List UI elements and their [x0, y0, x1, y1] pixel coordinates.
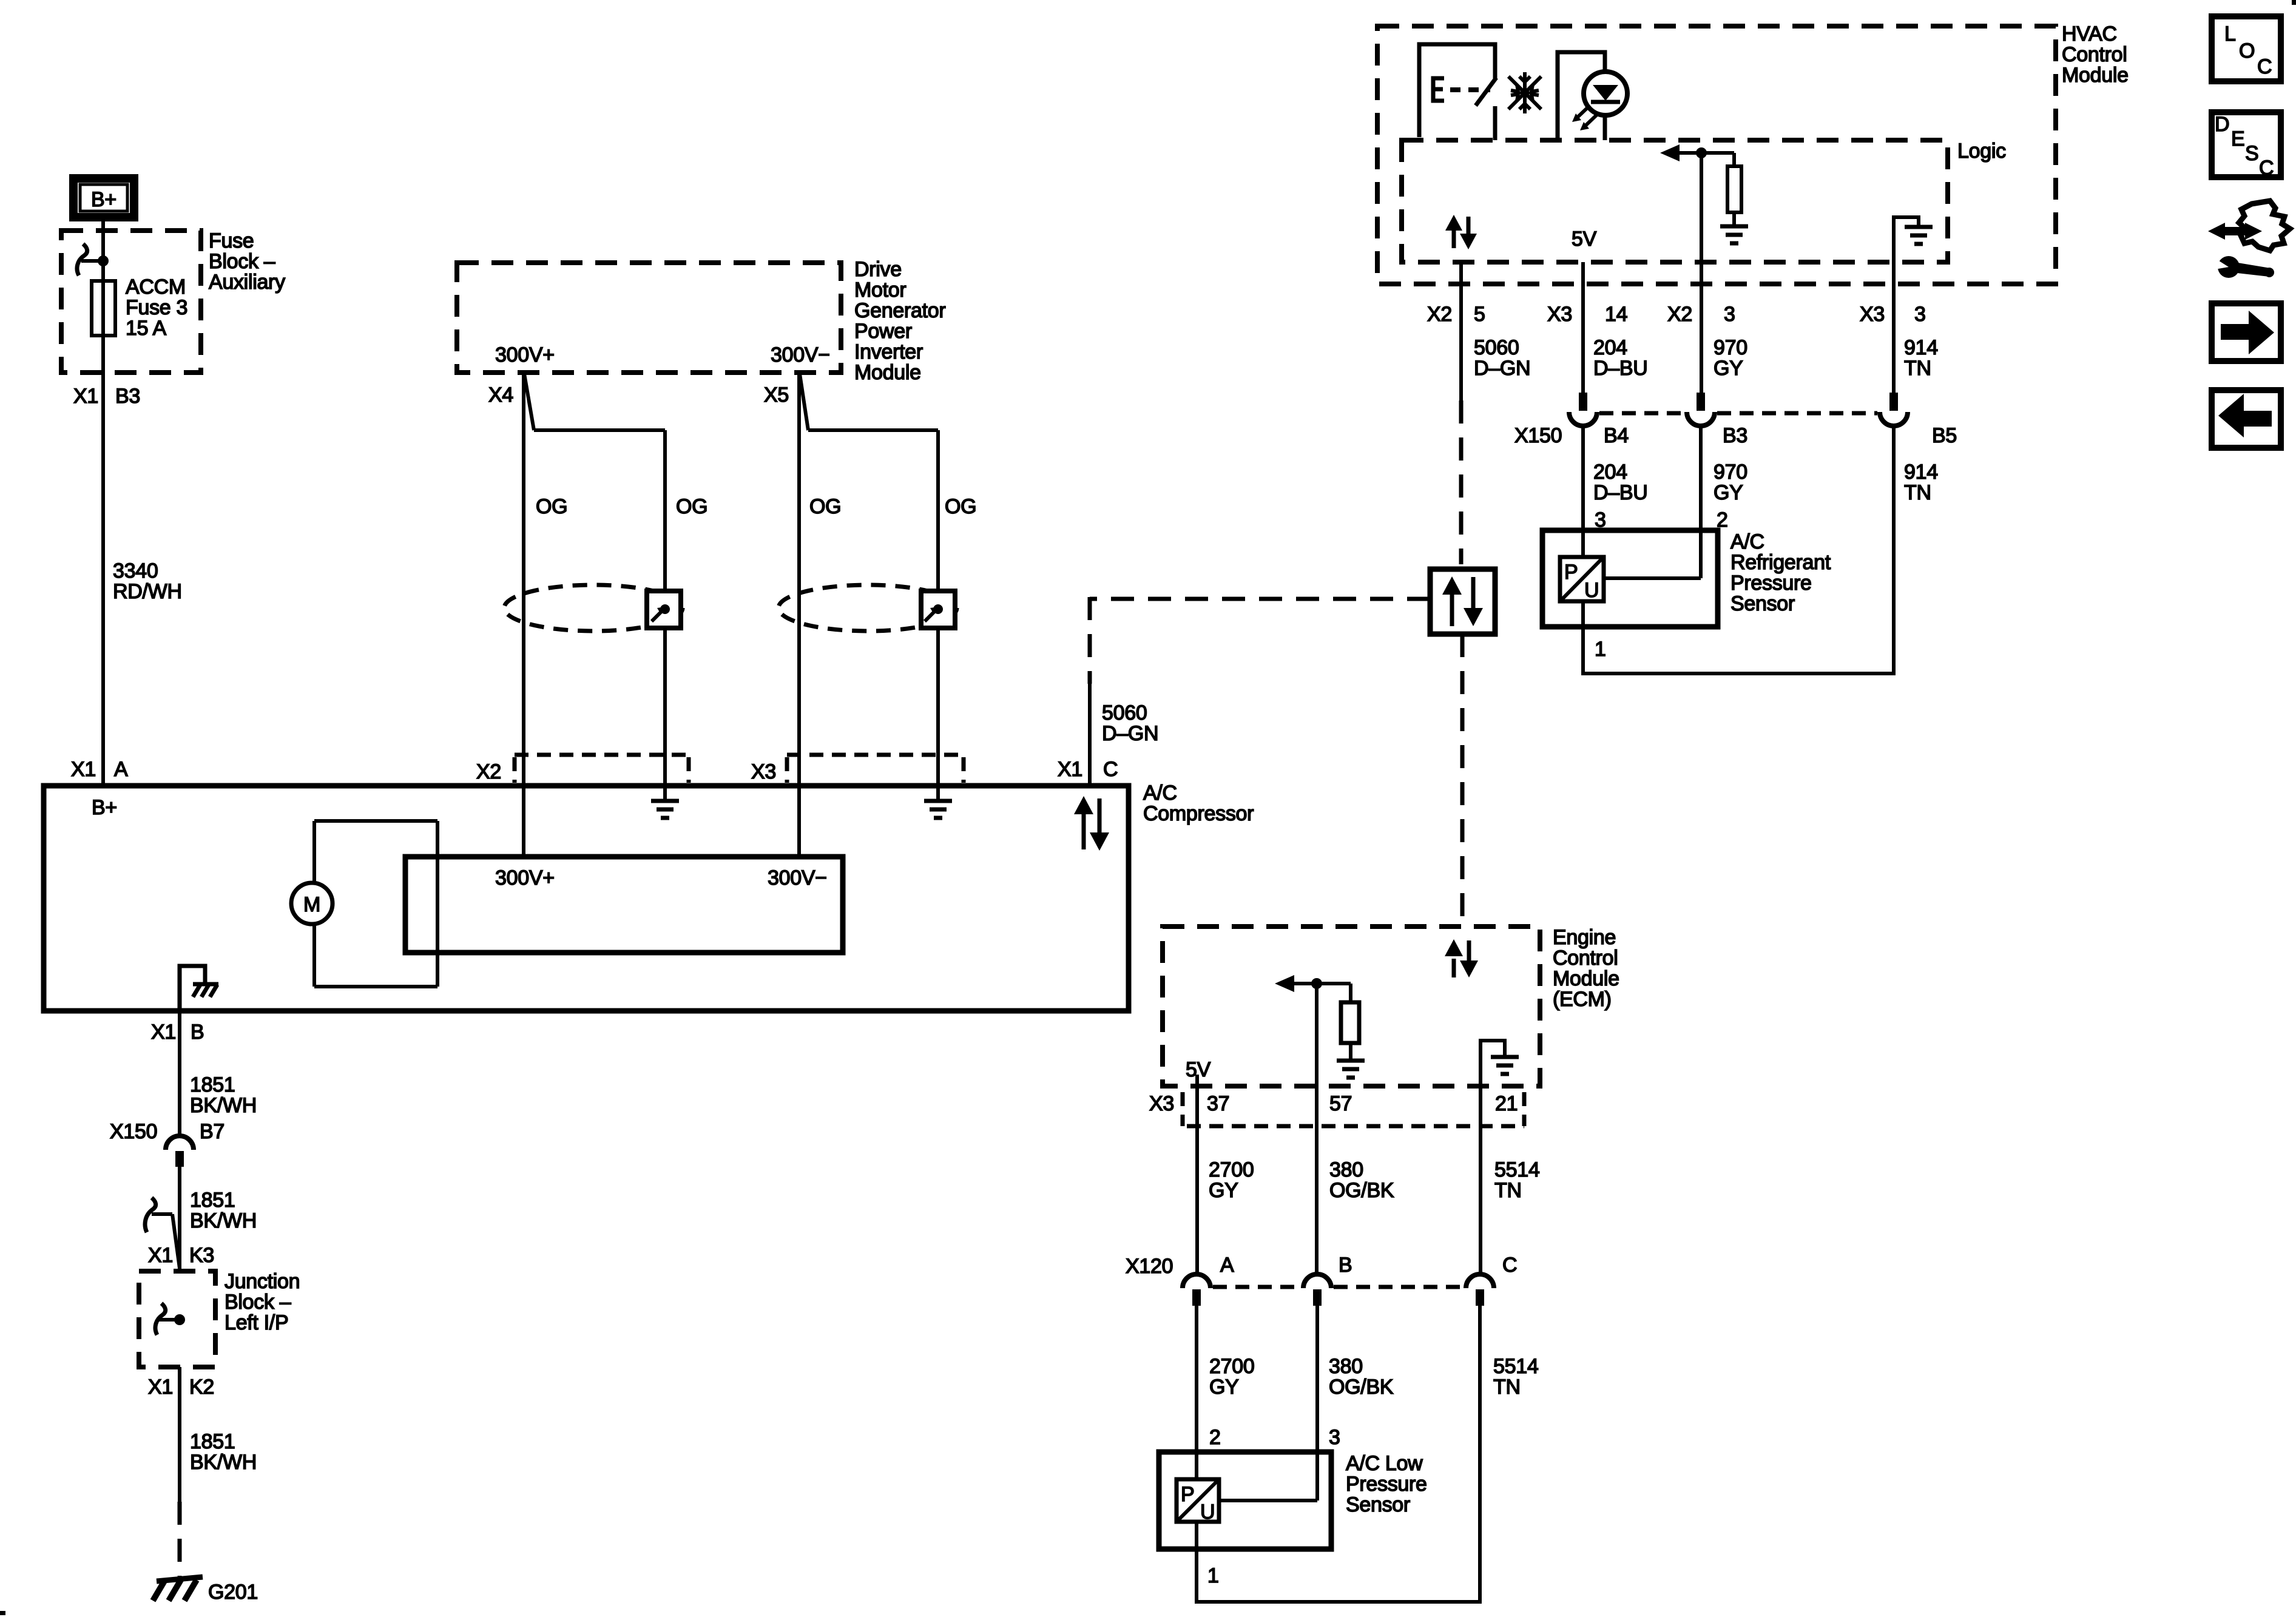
- svg-text:C: C: [1502, 1254, 1517, 1277]
- motor loop wiring: [314, 821, 437, 987]
- svg-text:57: 57: [1329, 1092, 1352, 1115]
- label fuse block - auxiliary: [209, 229, 285, 294]
- wire 204 D-BU to sensor pin 3: [1581, 426, 1585, 557]
- wire 5514 TN to low sensor pin 1: [1478, 1306, 1482, 1602]
- wire label 380 OG/BK (ecm side): [1329, 1158, 1394, 1202]
- wire 5060 solid segment to compressor X1-C: [1088, 684, 1092, 786]
- wire label 914 TN (hvac): [1904, 336, 1938, 380]
- wire sensor pin 1 down: [1581, 601, 1585, 673]
- svg-text:Block –: Block –: [209, 250, 275, 273]
- A/C on indicator LED: [1584, 72, 1627, 115]
- svg-text:U: U: [1200, 1501, 1215, 1524]
- wire label 5060 D-GN (compressor side): [1102, 701, 1158, 745]
- svg-text:X1: X1: [73, 385, 98, 408]
- svg-text:X1: X1: [1058, 758, 1082, 781]
- wire label 2700 GY (low sensor side): [1209, 1355, 1254, 1399]
- engine control module dashed box: [1163, 927, 1540, 1086]
- switch blade: [1476, 78, 1496, 106]
- shield wire left pair down to compressor ground: [663, 430, 667, 800]
- svg-text:Fuse: Fuse: [209, 229, 254, 252]
- wire 380 OG/BK from ecm pin 57: [1315, 984, 1319, 1274]
- connector X120 terminal B: [1303, 1274, 1331, 1306]
- svg-text:A: A: [114, 758, 128, 781]
- svg-text:970: 970: [1714, 336, 1747, 359]
- pressure transducer symbol P/U (refrigerant): [1560, 557, 1604, 602]
- wire 970 GY from hvac X2-3: [1700, 153, 1703, 393]
- svg-text:B3: B3: [115, 385, 140, 408]
- hvac pin labels X2 5: [1427, 303, 1485, 326]
- svg-text:P: P: [1181, 1483, 1194, 1506]
- snowflake icon: [1508, 72, 1541, 113]
- svg-text:Junction: Junction: [225, 1270, 300, 1293]
- serial data dashed line to compressor: [1090, 597, 1430, 684]
- wire label 970 GY (sensor side): [1714, 461, 1747, 504]
- svg-text:Control: Control: [1553, 947, 1618, 970]
- svg-text:TN: TN: [1494, 1179, 1522, 1202]
- pullup resistor (hvac): [1701, 153, 1741, 225]
- svg-text:Pressure: Pressure: [1730, 572, 1812, 595]
- wire 914 TN to sensor pin 1: [1892, 426, 1896, 673]
- wire label 5514 TN (ecm side): [1494, 1158, 1539, 1202]
- svg-text:K3: K3: [189, 1244, 214, 1267]
- svg-text:Inverter: Inverter: [854, 340, 923, 363]
- svg-text:Control: Control: [2062, 43, 2127, 66]
- pin labels X1 B: [151, 1021, 204, 1044]
- svg-text:O: O: [2239, 39, 2255, 62]
- svg-text:TN: TN: [1904, 357, 1931, 380]
- svg-text:1851: 1851: [190, 1430, 235, 1453]
- svg-text:K2: K2: [189, 1376, 214, 1399]
- svg-text:B7: B7: [200, 1120, 225, 1143]
- ground symbol left shield drain: [651, 786, 679, 818]
- wire label 914 TN (sensor side): [1904, 461, 1938, 504]
- connector X150 dashed links: [1599, 411, 1877, 416]
- svg-text:970: 970: [1714, 461, 1747, 484]
- svg-text:5060: 5060: [1474, 336, 1519, 359]
- A/C refrigerant pressure sensor box: [1542, 530, 1718, 627]
- connector labels X150 B4 B3 B5: [1514, 424, 1957, 447]
- svg-text:OG: OG: [945, 495, 976, 518]
- svg-text:Fuse 3: Fuse 3: [126, 296, 187, 319]
- wire label 1851 BK/WH (lower): [190, 1430, 257, 1474]
- svg-text:X1: X1: [148, 1376, 173, 1399]
- wire 970 GY to sensor pin 2: [1699, 426, 1703, 578]
- svg-text:914: 914: [1904, 336, 1938, 359]
- serial data arrows inside compressor: [1074, 796, 1109, 851]
- connector lead hook above junction block: [145, 1198, 180, 1268]
- svg-text:Left I/P: Left I/P: [225, 1311, 288, 1334]
- fuse ACCM Fuse 3 15A: [92, 275, 187, 340]
- svg-text:B+: B+: [92, 796, 117, 819]
- wire 2700 GY from ecm pin 37: [1195, 1075, 1199, 1274]
- svg-text:Engine: Engine: [1553, 926, 1616, 949]
- wire label 1851 BK/WH (middle): [190, 1189, 257, 1232]
- svg-text:RD/WH: RD/WH: [113, 580, 182, 603]
- svg-text:X4: X4: [488, 383, 513, 407]
- svg-text:B4: B4: [1604, 424, 1629, 447]
- label A/C low pressure sensor: [1346, 1452, 1427, 1516]
- chassis ground G201: [153, 1577, 203, 1601]
- pin labels X1 B3: [73, 385, 140, 408]
- fuse block - auxiliary dashed box: [61, 231, 201, 373]
- svg-text:1: 1: [1207, 1564, 1219, 1587]
- wire 300V+ from X4 down to compressor inner module: [522, 373, 525, 857]
- hvac pin labels X2 3: [1667, 303, 1735, 326]
- svg-text:1: 1: [1595, 638, 1606, 661]
- hvac pin labels X3 14: [1547, 303, 1627, 326]
- motor M circle: [291, 883, 333, 924]
- svg-text:Pressure: Pressure: [1346, 1473, 1427, 1496]
- svg-text:Module: Module: [1553, 967, 1619, 990]
- svg-text:TN: TN: [1493, 1376, 1521, 1399]
- svg-text:380: 380: [1329, 1158, 1363, 1181]
- svg-text:A/C: A/C: [1730, 530, 1764, 553]
- wire label 970 GY (hvac): [1714, 336, 1747, 380]
- label HVAC control module: [2062, 22, 2129, 87]
- serial data arrows inside ECM: [1445, 939, 1478, 977]
- svg-text:B3: B3: [1723, 424, 1747, 447]
- junction node at X2-3 pullup: [1696, 147, 1707, 158]
- logic dashed box: [1402, 140, 1948, 262]
- hvac pin labels X3 3: [1860, 303, 1926, 326]
- svg-text:L: L: [2224, 22, 2236, 46]
- wire label 5060 D-GN (hvac): [1474, 336, 1530, 380]
- svg-text:21: 21: [1495, 1092, 1518, 1115]
- svg-text:X3: X3: [1547, 303, 1572, 326]
- svg-text:2700: 2700: [1209, 1158, 1254, 1181]
- junction node in fuse block: [98, 255, 109, 266]
- wire low sensor pin 3 internal link: [1219, 1499, 1317, 1502]
- svg-text:C: C: [2257, 55, 2272, 78]
- shield drain lead at X5: [800, 374, 938, 430]
- svg-text:BK/WH: BK/WH: [190, 1451, 257, 1474]
- logic output arrow to X2-3: [1660, 144, 1701, 161]
- diagnostic tool icon (arrows and wrench): [2208, 201, 2290, 278]
- svg-text:A/C: A/C: [1143, 781, 1177, 805]
- svg-text:Block –: Block –: [225, 1291, 291, 1314]
- back arrow icon box: [2212, 390, 2281, 448]
- svg-text:B5: B5: [1932, 424, 1957, 447]
- wire label 3340 RD/WH: [113, 559, 182, 603]
- svg-text:2700: 2700: [1209, 1355, 1254, 1378]
- svg-text:Module: Module: [854, 361, 921, 384]
- wire low sensor pin 1 return to 5514 TN: [1195, 1600, 1482, 1604]
- svg-text:X3: X3: [1149, 1092, 1174, 1115]
- pin labels X1 A: [71, 758, 128, 781]
- svg-text:B+: B+: [91, 188, 116, 211]
- serial data dashed line to ECM: [1460, 634, 1465, 927]
- svg-text:3340: 3340: [113, 559, 158, 582]
- A/C on indicator LED loop: [1558, 52, 1605, 140]
- connector X150 terminal B7: [166, 1136, 194, 1167]
- svg-text:Auxiliary: Auxiliary: [209, 271, 285, 294]
- svg-text:Sensor: Sensor: [1730, 592, 1795, 615]
- A/C compressor module box: [44, 786, 1129, 1011]
- svg-text:ACCM: ACCM: [126, 275, 186, 299]
- pulldown resistor (ecm): [1317, 984, 1359, 1059]
- svg-text:3: 3: [1724, 303, 1735, 326]
- svg-text:S: S: [2245, 142, 2258, 165]
- svg-text:300V−: 300V−: [771, 343, 830, 366]
- wire label 5514 TN (low sensor side): [1493, 1355, 1538, 1399]
- svg-text:X1: X1: [148, 1244, 173, 1267]
- svg-text:A: A: [1220, 1254, 1234, 1277]
- connector X120 pin letters A B C: [1220, 1254, 1517, 1277]
- evaporator temperature switch loop: [1419, 44, 1495, 140]
- svg-text:GY: GY: [1714, 357, 1743, 380]
- svg-text:P: P: [1564, 561, 1578, 584]
- wire 300V- from X5 down to compressor inner module: [797, 373, 801, 857]
- svg-text:OG/BK: OG/BK: [1329, 1179, 1394, 1202]
- connector X150 terminal B4: [1569, 393, 1597, 426]
- svg-text:Module: Module: [2062, 64, 2129, 87]
- connector bracket X3 (compressor): [751, 755, 964, 783]
- svg-text:(ECM): (ECM): [1553, 988, 1612, 1011]
- ground symbol right shield drain: [924, 786, 952, 818]
- svg-text:300V+: 300V+: [495, 866, 555, 890]
- fuse block connector lead hook: [77, 244, 103, 275]
- svg-text:OG: OG: [676, 495, 707, 518]
- connector X120 terminal C: [1466, 1274, 1494, 1306]
- svg-text:BK/WH: BK/WH: [190, 1209, 257, 1232]
- LED light arrows: [1572, 106, 1598, 130]
- svg-text:OG: OG: [536, 495, 567, 518]
- serial data symbol box: [1430, 569, 1495, 634]
- wire 380 OG/BK to low sensor pin 3: [1315, 1306, 1319, 1501]
- wire 2700 GY to low sensor pin 2: [1195, 1306, 1198, 1479]
- switch E marking: [1433, 78, 1490, 101]
- svg-text:BK/WH: BK/WH: [190, 1094, 257, 1117]
- svg-text:GY: GY: [1209, 1376, 1239, 1399]
- svg-text:X120: X120: [1126, 1255, 1173, 1278]
- svg-text:3: 3: [1914, 303, 1926, 326]
- svg-text:X150: X150: [110, 1120, 157, 1143]
- svg-text:1851: 1851: [190, 1189, 235, 1212]
- svg-text:D–BU: D–BU: [1593, 481, 1648, 504]
- svg-text:U: U: [1584, 579, 1599, 602]
- dashed wire segment to G201: [178, 1502, 182, 1576]
- label A/C refrigerant pressure sensor: [1730, 530, 1831, 615]
- serial data arrows inside logic: [1445, 215, 1477, 249]
- pin labels X1 K2: [148, 1376, 214, 1399]
- compressor internal chassis ground: [180, 966, 218, 1009]
- svg-text:3: 3: [1329, 1426, 1340, 1449]
- shield ellipse around left 300V pair: [504, 585, 683, 631]
- wire label 204 D-BU (sensor side): [1593, 461, 1648, 504]
- junction node at ecm pin 57: [1311, 978, 1322, 989]
- compressor inner power module box: [405, 857, 843, 953]
- corner mark bottom left: [0, 1611, 5, 1615]
- svg-text:C: C: [2259, 157, 2274, 180]
- svg-text:X2: X2: [1667, 303, 1692, 326]
- HVAC control module dashed box: [1377, 26, 2056, 284]
- svg-text:Logic: Logic: [1957, 140, 2006, 163]
- svg-text:5060: 5060: [1102, 701, 1147, 724]
- wire label 1851 BK/WH (upper): [190, 1073, 257, 1117]
- wire 5060 dashed segment to serial box: [1459, 400, 1464, 564]
- wire label 2700 GY (ecm side): [1209, 1158, 1254, 1202]
- connector X120 dashed links: [1213, 1285, 1464, 1289]
- ground symbol below pullup (hvac): [1720, 226, 1748, 243]
- svg-text:5514: 5514: [1493, 1355, 1538, 1378]
- svg-text:TN: TN: [1904, 481, 1931, 504]
- svg-text:X2: X2: [476, 760, 501, 783]
- svg-text:15 A: 15 A: [126, 317, 166, 340]
- svg-text:300V−: 300V−: [768, 866, 827, 890]
- wire sensor pin 1 return to 914 TN: [1581, 672, 1896, 675]
- wire 5514 TN from ecm pin 21: [1479, 1041, 1482, 1274]
- junction block left I/P dashed box: [139, 1271, 215, 1367]
- svg-text:D–GN: D–GN: [1102, 722, 1158, 745]
- ground elbow for ecm pin 21: [1481, 1041, 1519, 1086]
- wire 204 D-BU from hvac X3-14: [1581, 262, 1585, 393]
- svg-text:OG/BK: OG/BK: [1329, 1376, 1394, 1399]
- svg-text:GY: GY: [1209, 1179, 1238, 1202]
- wire B+ feed down to compressor (3340 RD/WH): [101, 221, 105, 786]
- svg-text:X3: X3: [751, 760, 776, 783]
- connector X150 terminal B3: [1687, 393, 1715, 426]
- svg-text:X1: X1: [71, 758, 96, 781]
- svg-text:GY: GY: [1714, 481, 1743, 504]
- svg-text:380: 380: [1329, 1355, 1363, 1378]
- svg-text:Compressor: Compressor: [1143, 802, 1254, 825]
- svg-text:D: D: [2215, 113, 2229, 136]
- A/C low pressure sensor box: [1159, 1452, 1331, 1549]
- wire 1851 BK/WH to ground: [178, 1367, 181, 1502]
- shield wire right pair down to compressor ground: [936, 430, 940, 800]
- connector X120 terminal A: [1183, 1274, 1210, 1306]
- label drive motor generator power inverter module: [854, 258, 945, 384]
- ecm connector X3 bracket: [1183, 1092, 1524, 1126]
- junction block connector lead hook: [155, 1303, 180, 1335]
- label A/C compressor: [1143, 781, 1254, 825]
- wire 5060 solid segment from hvac X2-5: [1459, 262, 1463, 400]
- svg-text:E: E: [2231, 127, 2244, 150]
- svg-text:5V: 5V: [1572, 228, 1597, 251]
- forward arrow icon box: [2212, 303, 2281, 361]
- svg-text:D–GN: D–GN: [1474, 357, 1530, 380]
- svg-text:X5: X5: [764, 383, 789, 407]
- svg-text:1851: 1851: [190, 1073, 235, 1096]
- corner mark top right: [2292, 0, 2296, 5]
- svg-text:Generator: Generator: [854, 299, 945, 322]
- svg-text:X1: X1: [151, 1021, 176, 1044]
- svg-text:X150: X150: [1514, 424, 1562, 447]
- shield termination box left: [647, 591, 681, 628]
- svg-text:5514: 5514: [1494, 1158, 1539, 1181]
- svg-text:X2: X2: [1427, 303, 1452, 326]
- pin labels X1 K3: [148, 1244, 214, 1267]
- svg-text:Drive: Drive: [854, 258, 902, 281]
- svg-text:M: M: [303, 893, 320, 916]
- svg-text:B: B: [1339, 1254, 1352, 1277]
- shield drain lead at X4: [524, 374, 665, 430]
- wire 1851 BK/WH from compressor X1-B: [178, 1011, 181, 1137]
- battery positive B+ terminal box: [73, 178, 134, 217]
- connector X150 terminal B5: [1880, 393, 1908, 426]
- wire label 204 D-BU (hvac): [1593, 336, 1648, 380]
- svg-text:5: 5: [1474, 303, 1485, 326]
- svg-text:G201: G201: [208, 1581, 258, 1604]
- DESC icon box: [2212, 112, 2281, 180]
- svg-text:Motor: Motor: [854, 279, 906, 302]
- svg-text:HVAC: HVAC: [2062, 22, 2117, 46]
- svg-text:37: 37: [1207, 1092, 1229, 1115]
- svg-text:A/C Low: A/C Low: [1346, 1452, 1423, 1475]
- ground symbol below resistor (ecm): [1337, 1061, 1365, 1078]
- label junction block left I/P: [225, 1270, 300, 1334]
- shield termination box right: [921, 591, 955, 628]
- svg-text:B: B: [191, 1021, 204, 1044]
- wire below B7 to junction block: [178, 1167, 181, 1271]
- svg-text:D–BU: D–BU: [1593, 357, 1648, 380]
- svg-text:914: 914: [1904, 461, 1938, 484]
- svg-text:C: C: [1103, 758, 1118, 781]
- LOC icon box: [2212, 16, 2281, 81]
- pressure transducer symbol P/U (low): [1177, 1479, 1219, 1524]
- wire 914 TN from hvac X3-3: [1892, 262, 1896, 393]
- ecm pin labels X3 37 57 21: [1149, 1092, 1518, 1115]
- svg-text:14: 14: [1605, 303, 1627, 326]
- wire label 380 OG/BK (low sensor side): [1329, 1355, 1394, 1399]
- svg-text:X3: X3: [1860, 303, 1885, 326]
- svg-text:Power: Power: [854, 320, 912, 343]
- svg-text:Sensor: Sensor: [1346, 1493, 1410, 1516]
- svg-text:204: 204: [1593, 336, 1627, 359]
- svg-text:204: 204: [1593, 461, 1627, 484]
- ecm output arrow for pin 57: [1275, 975, 1317, 992]
- connector labels X150 B7: [110, 1120, 225, 1143]
- ground elbow for X3-3 input (hvac): [1894, 217, 1933, 262]
- pin labels X1 C: [1058, 758, 1118, 781]
- shield ellipse around right 300V pair: [778, 585, 957, 631]
- wire low sensor pin 1 down: [1195, 1522, 1198, 1602]
- label engine control module ECM: [1553, 926, 1619, 1011]
- connector bracket X2 (compressor): [476, 755, 689, 783]
- svg-text:OG: OG: [809, 495, 841, 518]
- svg-text:Refrigerant: Refrigerant: [1730, 551, 1831, 574]
- drive motor generator power inverter module dashed box: [457, 263, 841, 373]
- junction node in junction block: [174, 1314, 185, 1325]
- wire sensor pin 2 internal link: [1604, 576, 1701, 580]
- svg-text:2: 2: [1209, 1426, 1221, 1449]
- svg-text:300V+: 300V+: [495, 343, 555, 366]
